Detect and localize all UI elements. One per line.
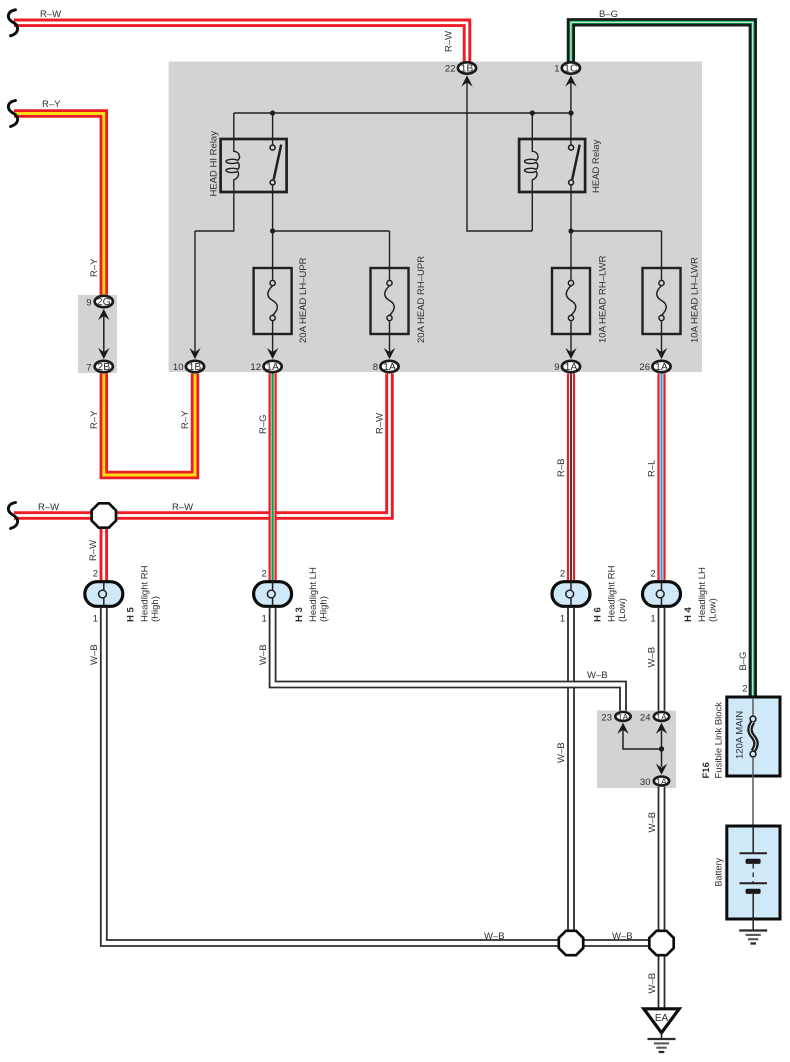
label W-B bottom middle	[612, 931, 633, 942]
wire R-W (8 to junction to H5)	[14, 374, 390, 581]
fusible link block box	[727, 697, 780, 826]
ground EA triangle	[644, 1009, 679, 1039]
junction (W-B right)	[649, 931, 673, 955]
svg-text:2G: 2G	[97, 296, 111, 308]
svg-text:(High): (High)	[150, 596, 161, 622]
svg-text:HEAD Relay: HEAD Relay	[591, 139, 602, 193]
wire B-G (1C to fusible link)	[571, 22, 753, 698]
connector 1 1C	[562, 62, 580, 74]
ground symbol battery	[739, 931, 767, 944]
svg-text:R–Y: R–Y	[89, 410, 100, 429]
wire R-Y (2B to 10)	[104, 373, 195, 475]
wire W-B (H4 down to connector 24)	[658, 608, 666, 711]
continuation squiggle R-W mid	[8, 503, 17, 529]
junction (W-B left)	[559, 931, 583, 955]
connector pass-through box (2G/2B gray box)	[78, 295, 117, 373]
wire: HI relay switch top leg	[272, 113, 274, 145]
svg-text:9: 9	[554, 362, 559, 373]
headlight H5 bulb	[85, 582, 123, 607]
label R-Y top	[42, 99, 61, 110]
svg-text:10A HEAD LH–LWR: 10A HEAD LH–LWR	[690, 257, 701, 343]
connector 7 2B	[95, 361, 113, 373]
continuation squiggle R-W top	[8, 10, 17, 36]
fuse 10A HEAD RH-LWR	[552, 268, 590, 353]
svg-text:2: 2	[560, 569, 565, 580]
label R-Y rotated right leg	[180, 410, 191, 429]
wire R-G (12 to H3)	[269, 374, 277, 581]
svg-text:2: 2	[650, 569, 655, 580]
svg-text:2: 2	[93, 569, 98, 580]
svg-text:8: 8	[373, 362, 378, 373]
labels headlight H3	[262, 567, 330, 625]
svg-text:W–B: W–B	[484, 931, 505, 942]
label R-W mid left	[38, 502, 59, 513]
svg-text:24: 24	[640, 713, 651, 724]
label 20A HEAD LH-UPR	[298, 257, 309, 343]
svg-text:B–G: B–G	[738, 651, 749, 670]
wire W-B (30 down to right junction)	[658, 787, 666, 936]
svg-text:R–W: R–W	[38, 502, 59, 513]
wire: bus from coil HI to switch HEAD	[195, 82, 662, 353]
label 9 at fuse	[554, 362, 559, 373]
connector 26 1A	[652, 361, 670, 373]
connector 10 1B	[186, 361, 204, 373]
label R-B rotated	[556, 459, 567, 477]
label 30	[640, 777, 651, 788]
relay HEAD	[519, 139, 585, 192]
arrow into 2G	[98, 309, 109, 320]
svg-text:R–W: R–W	[375, 413, 386, 434]
wire: HI relay coil top leg	[233, 113, 235, 139]
svg-text:W–B: W–B	[647, 973, 658, 994]
svg-text:Headlight RH: Headlight RH	[139, 565, 150, 622]
junction dot in joint connector	[659, 746, 664, 751]
svg-text:10A HEAD RH–LWR: 10A HEAD RH–LWR	[598, 255, 609, 343]
svg-text:30: 30	[640, 777, 651, 788]
label R-G rotated	[258, 414, 269, 434]
wire W-B (between junctions)	[571, 939, 662, 947]
svg-text:1: 1	[560, 614, 565, 625]
connector 8 1A	[380, 361, 398, 373]
arrow into 26	[656, 348, 667, 359]
label B-G rotated right	[738, 651, 749, 670]
label 2 at F16	[742, 684, 747, 695]
wire: HI relay coil to connector 10	[195, 192, 234, 353]
svg-text:1C: 1C	[564, 63, 578, 75]
label 9 at 2G	[86, 298, 91, 309]
svg-text:EA: EA	[655, 1013, 669, 1024]
svg-text:1A: 1A	[656, 712, 667, 722]
svg-text:120A MAIN: 120A MAIN	[735, 711, 746, 759]
label W-B rotated below 30	[647, 812, 658, 833]
svg-text:1A: 1A	[266, 361, 279, 373]
label R-L rotated	[647, 460, 658, 477]
svg-text:R–G: R–G	[258, 414, 269, 434]
label R-W mid right	[172, 502, 193, 513]
labels headlight H6	[560, 565, 628, 624]
label 8	[373, 362, 378, 373]
arrow into 9	[565, 348, 576, 359]
svg-text:(High): (High)	[319, 596, 330, 622]
label R-W rotated into H5	[88, 540, 99, 561]
label F16	[701, 702, 725, 779]
svg-text:H 4: H 4	[683, 607, 694, 623]
svg-text:9: 9	[86, 298, 91, 309]
svg-text:W–B: W–B	[647, 812, 658, 833]
headlight H3 bulb	[254, 582, 292, 607]
label R-W rotated at 22	[444, 31, 455, 52]
svg-text:W–B: W–B	[587, 670, 608, 681]
label W-B rotated H3 wire	[258, 644, 269, 665]
svg-text:2B: 2B	[97, 361, 110, 373]
svg-text:1A: 1A	[383, 361, 396, 373]
arrow into 1C	[565, 75, 576, 86]
svg-text:1B: 1B	[461, 63, 474, 75]
connector 30 1A	[654, 776, 669, 786]
label B-G top	[599, 9, 618, 20]
junction dot at coil HEAD bus	[530, 110, 535, 115]
relay/junction block (large gray box)	[169, 62, 702, 373]
label 10A HEAD LH-LWR	[690, 257, 701, 343]
joint connector box (23/24/30 gray box)	[597, 711, 676, 789]
label 1 at 1C	[554, 64, 559, 75]
label 24	[640, 713, 651, 724]
svg-text:23: 23	[601, 713, 612, 724]
connector 12 1A	[264, 361, 282, 373]
svg-text:F16: F16	[701, 762, 712, 778]
connector 9 1A	[562, 361, 580, 373]
wire R-L (26 to H4)	[657, 374, 665, 581]
arrow into 10	[189, 348, 200, 359]
wire R-Y (top to 2G)	[14, 114, 104, 295]
svg-text:R–Y: R–Y	[89, 258, 100, 277]
label 26	[639, 362, 650, 373]
label W-B rotated H6 wire	[556, 742, 567, 763]
label Battery	[714, 857, 724, 886]
svg-text:B–G: B–G	[599, 9, 618, 20]
junction (R-W splice)	[92, 503, 116, 527]
svg-text:HEAD HI Relay: HEAD HI Relay	[209, 131, 220, 197]
label W-B rotated H4 wire	[647, 647, 658, 668]
label 10A HEAD RH-LWR	[598, 255, 609, 343]
junction dot below HEAD relay switch	[568, 228, 573, 233]
headlight H6 bulb	[552, 582, 590, 607]
fuse 10A HEAD LH-LWR	[643, 268, 681, 353]
label W-B bottom left	[484, 931, 505, 942]
svg-text:2: 2	[742, 684, 747, 695]
arrow into 23	[617, 723, 628, 734]
svg-text:H 6: H 6	[593, 607, 604, 622]
label W-B rotated above EA	[647, 973, 658, 994]
svg-text:W–B: W–B	[89, 644, 100, 665]
connector 24 1A	[654, 712, 669, 722]
labels headlight H4	[650, 567, 718, 625]
junction dot below HI relay switch	[270, 228, 275, 233]
wire: HEAD relay coil top leg	[531, 113, 533, 139]
continuation squiggle R-Y	[8, 101, 17, 127]
svg-text:22: 22	[445, 64, 456, 75]
wire: HI relay switch to UPR fuses	[273, 185, 390, 268]
wire: 1C leg down to HEAD relay switch	[570, 82, 572, 145]
svg-text:20A HEAD LH–UPR: 20A HEAD LH–UPR	[298, 257, 309, 343]
label 22 at 1B	[445, 64, 456, 75]
arrow into 30	[656, 764, 667, 775]
wire W-B (H6 down to left junction)	[567, 608, 575, 936]
arrow into 2B	[98, 348, 109, 359]
junction dot at switch HI bus	[270, 110, 275, 115]
svg-text:7: 7	[86, 363, 91, 374]
svg-text:R–Y: R–Y	[42, 99, 61, 110]
svg-text:1A: 1A	[656, 776, 667, 786]
svg-text:1: 1	[93, 614, 98, 625]
label 120A MAIN	[735, 711, 746, 759]
labels headlight H5	[93, 565, 161, 624]
connector 23 1A	[615, 712, 630, 722]
wire between 2G and 2B	[103, 314, 105, 352]
svg-text:R–W: R–W	[88, 540, 99, 561]
svg-text:R–B: R–B	[556, 459, 567, 477]
label 7 at 2B	[86, 363, 91, 374]
svg-text:R–Y: R–Y	[180, 410, 191, 429]
label W-B horizontal near 23	[587, 670, 608, 681]
label HEAD Relay	[591, 139, 602, 193]
svg-text:1A: 1A	[655, 361, 668, 373]
svg-text:W–B: W–B	[612, 931, 633, 942]
svg-text:Headlight RH: Headlight RH	[607, 565, 618, 622]
wire: 22 leg down and to HEAD relay coil	[467, 82, 532, 231]
svg-text:R–L: R–L	[647, 460, 658, 477]
relay HEAD HI	[221, 139, 287, 192]
wire W-B (right junction to ground EA)	[658, 943, 666, 1009]
label R-W rotated col C	[375, 413, 386, 434]
svg-text:R–W: R–W	[172, 502, 193, 513]
wire R-B (9 to H6)	[567, 374, 575, 581]
svg-text:2: 2	[262, 569, 267, 580]
svg-text:1A: 1A	[618, 712, 629, 722]
svg-text:26: 26	[639, 362, 650, 373]
battery box	[727, 826, 780, 930]
svg-text:Headlight LH: Headlight LH	[308, 567, 319, 622]
label 23	[601, 713, 612, 724]
svg-text:W–B: W–B	[556, 742, 567, 763]
label HEAD HI Relay	[209, 131, 220, 197]
svg-text:1: 1	[650, 614, 655, 625]
arrow into 24	[656, 723, 667, 734]
arrow into 22	[461, 75, 472, 86]
svg-text:Fusible Link Block: Fusible Link Block	[714, 702, 725, 779]
svg-text:1: 1	[262, 614, 267, 625]
svg-text:1B: 1B	[189, 361, 202, 373]
svg-text:Headlight LH: Headlight LH	[697, 567, 708, 622]
wire 24 to 30	[661, 728, 663, 767]
fuse 20A HEAD LH-UPR	[254, 268, 292, 353]
ground symbol EA	[648, 1039, 676, 1052]
label 12	[250, 362, 261, 373]
connector 22 1B	[458, 62, 476, 74]
svg-text:W–B: W–B	[647, 647, 658, 668]
wire W-B (H5 around bottom to left junction)	[104, 608, 565, 943]
svg-text:H 3: H 3	[294, 607, 305, 622]
svg-text:1A: 1A	[565, 361, 578, 373]
label R-Y rotated above 2G	[89, 258, 100, 277]
svg-text:Battery: Battery	[714, 857, 724, 886]
wire: HEAD relay switch to LWR fuses	[571, 185, 662, 268]
svg-text:1: 1	[554, 64, 559, 75]
svg-text:W–B: W–B	[258, 644, 269, 665]
svg-text:(Low): (Low)	[617, 598, 628, 622]
headlight H4 bulb	[643, 582, 681, 607]
svg-text:R–W: R–W	[40, 9, 61, 20]
label 20A HEAD RH-UPR	[416, 256, 427, 343]
svg-text:10: 10	[173, 362, 184, 373]
svg-text:12: 12	[250, 362, 261, 373]
label W-B rotated H5 wire	[89, 644, 100, 665]
svg-text:H 5: H 5	[125, 607, 136, 623]
fuse 20A HEAD RH-UPR	[371, 268, 409, 353]
arrow into 12	[267, 348, 278, 359]
connector 9 2G	[95, 296, 113, 308]
junction dot at 1C bus	[568, 110, 573, 115]
wire R-W (top feed to 22)	[14, 23, 467, 62]
svg-text:(Low): (Low)	[708, 598, 719, 622]
wire W-B (H3 across to connector 23)	[273, 608, 623, 711]
svg-text:20A HEAD RH–UPR: 20A HEAD RH–UPR	[416, 256, 427, 343]
label 10	[173, 362, 184, 373]
label R-Y rotated below 2B	[89, 410, 100, 429]
svg-text:R–W: R–W	[444, 31, 455, 52]
label R-W top	[40, 9, 61, 20]
arrow into 8	[384, 348, 395, 359]
wire 23 to junction	[623, 728, 662, 749]
